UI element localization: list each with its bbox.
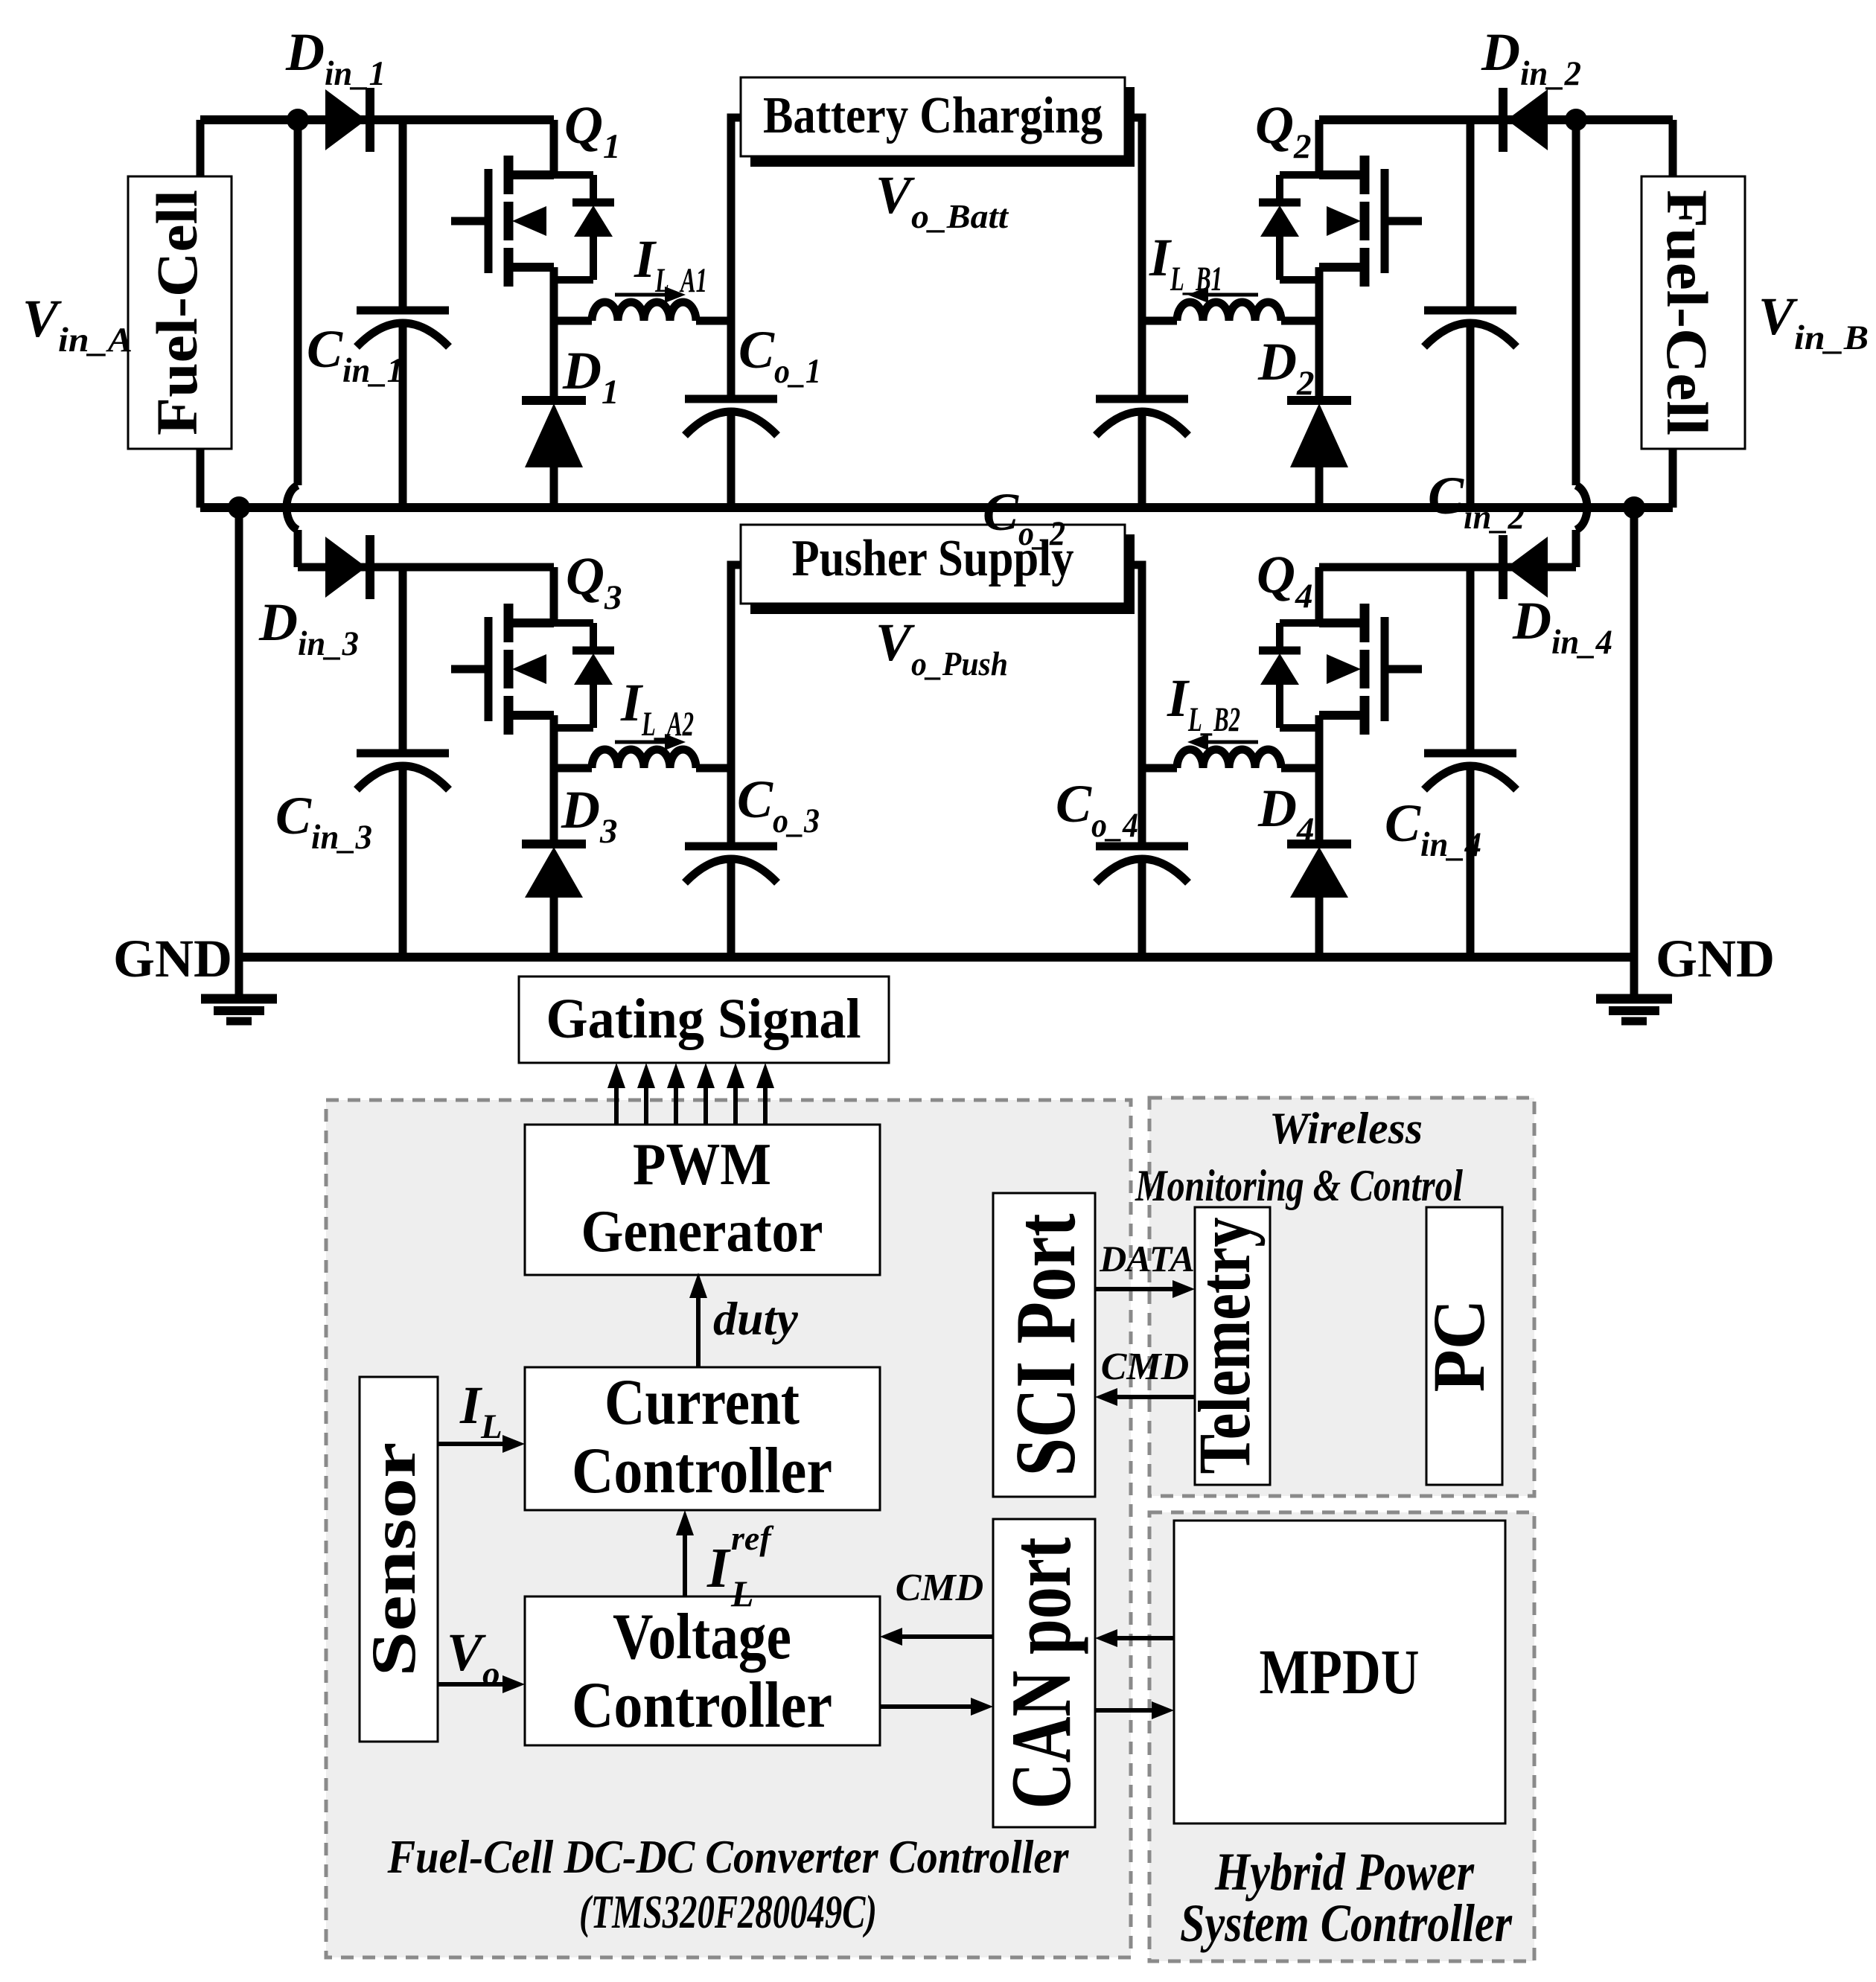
svg-text:Controller: Controller [572,1669,832,1742]
svg-text:Generator: Generator [581,1199,823,1265]
diode Din_4 [1503,535,1548,599]
wire bottom GND rail [239,953,1634,962]
svg-text:GND: GND [113,929,232,988]
svg-text:Q2: Q2 [1255,95,1312,166]
svg-text:Q1: Q1 [564,95,621,166]
svg-text:Din_2: Din_2 [1481,22,1581,93]
svg-text:duty: duty [713,1292,798,1345]
diode Din_2 [1503,88,1548,152]
diode Din_3 [325,535,370,599]
svg-text:SCI Port: SCI Port [998,1214,1093,1477]
svg-text:D2: D2 [1257,332,1315,403]
svg-text:CAN port: CAN port [994,1538,1088,1809]
svg-text:Vo_Batt: Vo_Batt [875,165,1009,235]
telemetry box [1183,1207,1270,1485]
arrow V_o (sensor to voltage controller) [438,1675,525,1693]
label Co_4 [1056,774,1138,845]
svg-text:Telemetry: Telemetry [1183,1218,1266,1474]
node junction dot A top [287,109,309,131]
svg-text:Din_1: Din_1 [285,22,386,93]
label Cin_3 [275,786,372,857]
transistor Q1 [451,120,614,321]
inductor L_A1 [554,302,731,321]
svg-text:Din_4: Din_4 [1512,591,1612,662]
svg-text:Cin_3: Cin_3 [275,786,372,857]
arrow MPDU to CAN [1095,1629,1174,1647]
label CMD can [896,1567,983,1609]
svg-text:IL_A1: IL_A1 [634,229,707,300]
svg-text:Controller: Controller [572,1435,832,1507]
label controller caption line1 [387,1830,1070,1883]
wire feeder A (top rail to Din_3) with hop over middle rail [287,120,298,567]
pusher supply box [741,525,1135,614]
inductor L_B2 [1142,749,1319,768]
svg-text:Monitoring & Control: Monitoring & Control [1135,1161,1463,1210]
label D4 [1257,779,1315,849]
label Vo_Push [875,613,1008,682]
svg-text:IL_B2: IL_B2 [1167,668,1240,739]
label Din_4 [1512,591,1612,662]
svg-text:GND: GND [1656,929,1775,988]
svg-text:CMD: CMD [1101,1346,1189,1388]
svg-text:D4: D4 [1257,779,1315,849]
label controller caption line2 [579,1885,877,1938]
inductor L_B1 [1142,302,1319,321]
svg-text:Din_3: Din_3 [258,592,359,663]
label Din_2 [1481,22,1581,93]
wire feeder B (top rail to Din_4) with hop over middle rail [1576,120,1587,567]
wire bottom row input A [298,563,554,572]
CAN port box [993,1519,1095,1827]
current arrow I_L_B2 [1187,734,1258,750]
svg-text:Q3: Q3 [566,546,622,617]
label Q3 [566,546,622,617]
label Q1 [564,95,621,166]
label D3 [561,780,618,851]
label hybrid caption line2 [1180,1893,1513,1953]
diode Din_1 [325,88,370,152]
wire battery output right [1135,118,1142,321]
arrow I_L_ref (voltage to current controller) [676,1510,694,1596]
svg-text:Wireless: Wireless [1269,1104,1423,1153]
label duty [713,1292,798,1345]
label wireless caption line1 [1269,1104,1423,1153]
label GND right [1656,929,1775,988]
label Vo_Batt [875,165,1009,235]
svg-text:MPDU: MPDU [1260,1636,1420,1707]
label D2 [1257,332,1315,403]
wire right ground drop [1630,508,1639,957]
label hybrid caption line1 [1214,1842,1475,1902]
node junction dot B middle rail [1623,496,1645,519]
label V_o [447,1623,500,1693]
label I_L_ref [706,1519,774,1614]
arrow I_L (sensor to current controller) [438,1435,525,1453]
current arrow I_L_A1 [615,287,686,303]
svg-text:Gating Signal: Gating Signal [546,988,861,1050]
label Cin_2 [1428,466,1525,537]
diode D2 [1287,321,1351,508]
svg-text:Sensor: Sensor [359,1442,429,1677]
label Cin_4 [1385,793,1481,864]
arrow DATA (SCI to telemetry) [1095,1280,1195,1298]
capacitor Co_2 [1096,321,1188,508]
wire pusher output right [1135,565,1142,768]
controller dashed box (Fuel-Cell DC-DC Converter Controller region) [326,1100,1131,1957]
svg-text:Co_1: Co_1 [738,320,821,391]
PWM generator box [525,1125,880,1275]
label Q2 [1255,95,1312,166]
capacitor Cin_3 [357,567,449,957]
svg-text:ref: ref [731,1519,774,1557]
label I_L_A2 [620,673,694,744]
fuel cell B wires [1669,120,1677,508]
arrow voltage controller to CAN [880,1698,993,1716]
current arrow I_L_A2 [615,734,686,750]
svg-text:Fuel-Cell DC-DC Converter Cont: Fuel-Cell DC-DC Converter Controller [387,1830,1070,1883]
label I_L_A1 [634,229,707,300]
svg-text:Vo_Push: Vo_Push [875,613,1008,682]
wire top rail right (Q2 drain to Vin_B) [1319,115,1673,124]
label I_L_B1 [1149,228,1222,298]
ground symbol left [201,957,277,1021]
label Co_1 [738,320,821,391]
wire pusher output left [731,565,741,768]
capacitor Cin_2 [1424,120,1516,508]
hybrid power system controller dashed box [1149,1512,1534,1961]
label GND left [113,929,232,988]
label I_L [459,1375,502,1446]
label Din_1 [285,22,386,93]
svg-text:Fuel-Cell: Fuel-Cell [144,190,209,435]
label D1 [562,341,619,412]
wireless monitoring dashed box [1149,1098,1534,1496]
svg-text:Vin_A: Vin_A [22,289,133,359]
svg-text:DATA: DATA [1099,1238,1195,1279]
svg-text:PWM: PWM [633,1132,771,1198]
svg-text:Cin_2: Cin_2 [1428,466,1525,537]
svg-text:IL_A2: IL_A2 [620,673,694,744]
label Q4 [1257,545,1313,616]
label Co_3 [737,770,820,840]
node junction dot B top [1565,109,1587,131]
svg-text:Battery Charging: Battery Charging [763,87,1103,144]
inductor L_A2 [554,749,731,768]
transistor Q4 [1259,567,1422,768]
svg-text:PC: PC [1417,1300,1500,1393]
svg-text:L: L [730,1573,754,1614]
svg-text:(TMS320F280049C): (TMS320F280049C) [579,1885,877,1938]
label CMD telemetry [1101,1346,1189,1388]
current arrow I_L_B1 [1187,287,1258,303]
gating signal box [519,976,889,1063]
fuel cell A wires [197,120,205,508]
label wireless caption line2 [1135,1161,1463,1210]
voltage controller box [525,1596,880,1745]
svg-text:Fuel-Cell: Fuel-Cell [1655,190,1720,435]
sensor box [359,1377,438,1742]
label I_L_B2 [1167,668,1240,739]
diode D4 [1287,768,1351,957]
wire battery output left [731,118,741,321]
svg-text:Vin_B: Vin_B [1758,287,1869,357]
label Vin_B [1758,287,1869,357]
capacitor Co_1 [685,321,777,508]
svg-text:CMD: CMD [896,1567,983,1609]
svg-text:I: I [706,1537,731,1599]
ground symbol right [1596,957,1672,1021]
wire left ground drop [235,508,243,957]
svg-text:Voltage: Voltage [613,1601,791,1673]
label Vin_A [22,289,133,359]
svg-text:Current: Current [604,1366,800,1439]
label Co_2 [983,482,1065,553]
capacitor Cin_1 [357,120,449,508]
diode D1 [522,321,586,508]
capacitor Cin_4 [1424,567,1516,957]
transistor Q2 [1259,120,1422,321]
svg-text:Co_4: Co_4 [1056,774,1138,845]
arrow CMD (CAN to voltage controller) [880,1628,993,1646]
MPDU box [1174,1521,1505,1823]
wire middle rail (fuel-cell negative bus) [200,503,1673,512]
arrow CAN to MPDU [1095,1701,1174,1719]
wire top rail left (Vin_A to Q1 drain) [200,115,554,124]
svg-text:Co_3: Co_3 [737,770,820,840]
svg-text:System Controller: System Controller [1180,1893,1513,1953]
label Din_3 [258,592,359,663]
label DATA [1099,1238,1195,1279]
wire bottom row input B [1319,563,1576,572]
svg-text:Q4: Q4 [1257,545,1313,616]
capacitor Co_3 [685,768,777,957]
arrow CMD (telemetry to SCI) [1095,1388,1195,1406]
svg-text:Hybrid Power: Hybrid Power [1214,1842,1475,1902]
node junction dot A middle rail [228,496,250,519]
svg-text:IL_B1: IL_B1 [1149,228,1222,298]
capacitor Co_4 [1096,768,1188,957]
arrow duty (current controller to PWM) [689,1273,707,1367]
SCI port box [993,1193,1095,1497]
battery charging box [741,77,1135,167]
fuel cell A box [128,176,232,449]
fuel cell B box [1641,176,1745,449]
transistor Q3 [451,567,614,768]
current controller box [525,1366,880,1510]
label Cin_1 [307,319,403,390]
diode D3 [522,768,586,957]
svg-text:Cin_1: Cin_1 [307,319,403,390]
gating signal arrows (PWM outputs) [607,1063,774,1131]
PC box [1417,1207,1502,1485]
